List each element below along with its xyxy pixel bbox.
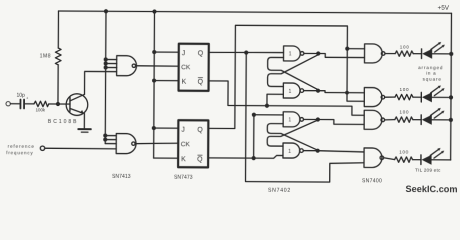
svg-text:Q: Q: [197, 156, 203, 163]
wire gate1 input stubs: [106, 58, 117, 60]
wire reference input: [45, 147, 116, 150]
wire latch2 feedback d: [267, 120, 318, 147]
svg-text:SeekIC.com: SeekIC.com: [405, 184, 457, 194]
svg-text:J: J: [182, 50, 186, 57]
svg-text:reference: reference: [8, 144, 35, 149]
node latch2c out: [316, 117, 320, 121]
nor gate U3a SN7402: [284, 46, 301, 61]
wire J1: [154, 51, 178, 53]
wire Qbar2 out: [208, 155, 283, 158]
wire 1M8 branch top: [57, 11, 59, 48]
wire to LED1: [413, 53, 421, 55]
wire to LED2: [413, 96, 421, 98]
node J2: [152, 126, 156, 130]
terminal input osc: [6, 102, 10, 106]
wire gate2 out: [385, 96, 395, 98]
overline Qbar1: [198, 77, 203, 79]
overline Qbar2: [197, 154, 202, 156]
wire 1M8 bottom to base node: [57, 65, 59, 104]
node gate2 stub joints: [103, 134, 107, 138]
node Q2 crossing: [345, 91, 349, 95]
flip-flop U2a SN7473: [179, 44, 209, 91]
node Qbar1 branch: [265, 104, 269, 108]
transistor Q1 BC108B: [66, 94, 88, 116]
wire +5V top rail: [58, 11, 451, 13]
svg-text:Q: Q: [197, 127, 203, 134]
resistor R4 100: [395, 94, 413, 100]
wire latch2c out to gate3: [318, 120, 364, 125]
wire gate1 out to CK1: [136, 65, 179, 67]
wire latch2d out to gate4: [318, 151, 364, 152]
svg-text:100: 100: [400, 45, 410, 50]
svg-text:SN7473: SN7473: [174, 175, 193, 181]
node top rail to gate column: [104, 9, 108, 13]
svg-text:SN7402: SN7402: [268, 188, 291, 194]
node Q1 branch: [244, 50, 248, 54]
wire gate1 out: [385, 52, 395, 54]
node Q2 to gate3 top: [345, 47, 349, 51]
wire K2: [154, 157, 178, 159]
node rail to JK bus: [152, 9, 156, 13]
wire latch1a out to gate1: [318, 54, 364, 58]
wire vertical gate input bus: [104, 11, 107, 143]
node latch1b out: [316, 89, 320, 93]
resistor R6 100: [395, 157, 413, 163]
svg-text:SN7400: SN7400: [362, 178, 382, 184]
led D4: [420, 155, 422, 165]
nand gate U4c SN7400: [364, 110, 382, 129]
wire JK tie bus: [153, 12, 156, 158]
wire latch2 feedback c: [267, 124, 318, 151]
led D2: [420, 92, 422, 102]
svg-text:CK: CK: [181, 64, 191, 71]
svg-text:100: 100: [400, 87, 410, 92]
svg-text:arranged: arranged: [418, 65, 443, 70]
wire Q1 down loop to gate row4: [246, 53, 365, 183]
svg-text:100: 100: [399, 110, 409, 115]
svg-text:TIL 209 etc: TIL 209 etc: [415, 168, 441, 173]
node LED2 rail: [449, 95, 453, 99]
wire collector up: [85, 71, 117, 94]
svg-text:+5V: +5V: [437, 5, 449, 12]
svg-text:SN7413: SN7413: [112, 174, 131, 180]
svg-text:CK: CK: [181, 141, 191, 148]
wire latch1 feedback a: [268, 57, 319, 89]
wire gate2 out to CK2: [135, 142, 178, 145]
wire right +5V rail: [450, 13, 453, 160]
flip-flop U2b SN7473: [178, 120, 208, 167]
wire latch1 feedback b: [268, 54, 319, 86]
wire terminal to capacitor: [10, 103, 19, 105]
node gate1 stub joints: [104, 57, 108, 61]
resistor R5 100: [395, 117, 413, 123]
node latch2d out: [316, 149, 320, 153]
svg-text:J: J: [181, 127, 185, 134]
wire Q2 out: [208, 25, 364, 129]
svg-text:1: 1: [289, 89, 292, 95]
svg-text:Q: Q: [198, 50, 204, 57]
svg-text:1: 1: [288, 118, 291, 124]
svg-text:100: 100: [399, 150, 409, 155]
wire J2: [154, 127, 178, 129]
node LED1 rail: [449, 52, 453, 56]
wire gate3 out: [385, 118, 395, 120]
resistor R1 1M8: [55, 48, 61, 65]
node J1: [152, 50, 156, 54]
wire gate4 out: [384, 158, 395, 160]
wire Qbar2 vertical link: [253, 115, 255, 158]
node latch1a out: [316, 51, 320, 55]
wire Q2 branch gate3: [347, 48, 364, 50]
nand gate U4d SN7400: [364, 148, 382, 168]
svg-text:Q: Q: [198, 79, 204, 86]
led D1: [421, 49, 423, 59]
node base junction: [56, 102, 60, 106]
ground: [78, 128, 90, 130]
wire to LED3: [413, 119, 421, 121]
node K1: [152, 79, 156, 83]
resistor R3 100: [395, 51, 413, 57]
svg-text:1M8: 1M8: [40, 53, 51, 59]
wire resistor to base: [49, 103, 70, 105]
svg-text:1: 1: [288, 149, 291, 155]
svg-text:100k: 100k: [36, 107, 46, 112]
nand gate U4b SN7400: [364, 88, 382, 107]
nand gate U1b SN7413: [116, 134, 136, 154]
wire gate2 input stubs: [105, 135, 116, 137]
resistor R2 100k: [34, 101, 49, 106]
svg-text:in a: in a: [426, 71, 436, 76]
wire latch1b out to gate2: [318, 91, 364, 93]
svg-text:K: K: [182, 79, 187, 86]
nand gate U1a SN7413: [117, 56, 137, 76]
terminal reference frequency: [40, 146, 44, 150]
wire Qbar1 to latch1 lower input: [267, 94, 283, 106]
svg-text:10p: 10p: [16, 93, 25, 99]
nor gate U3b SN7402: [283, 83, 300, 98]
wire emitter down: [83, 113, 85, 128]
wire latch2 top input: [254, 114, 283, 116]
wire Qbar1 out: [208, 81, 364, 115]
wire to LED4: [413, 159, 421, 161]
node link to latch2 input: [252, 113, 256, 117]
svg-text:frequency: frequency: [6, 150, 33, 155]
node Qbar2 branch: [252, 156, 256, 160]
svg-text:square: square: [423, 76, 442, 81]
wire capacitor to resistor: [25, 103, 34, 105]
wire Q1 out: [209, 51, 284, 54]
svg-text:BC108B: BC108B: [48, 119, 79, 125]
svg-text:K: K: [181, 156, 186, 163]
svg-text:+: +: [26, 95, 29, 100]
nor gate U3d SN7402: [283, 143, 300, 158]
svg-text:1: 1: [289, 52, 292, 58]
node LED3 rail: [449, 118, 453, 122]
led D3: [420, 115, 422, 125]
capacitor C1 10p: [19, 100, 21, 109]
nor gate U3c SN7402: [283, 112, 300, 127]
nand gate U4a SN7400: [364, 44, 382, 63]
wire K1: [154, 80, 178, 82]
